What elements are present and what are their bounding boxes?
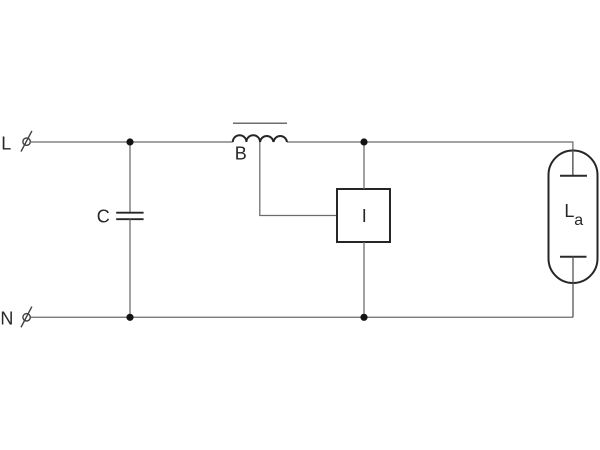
junction dot bottom capacitor	[126, 314, 133, 321]
junction dot top capacitor	[126, 138, 133, 145]
svg-text:B: B	[235, 143, 247, 163]
lamp La envelope	[549, 151, 598, 284]
terminal N	[21, 307, 32, 328]
lamp top electrode	[560, 150, 587, 176]
wire: ignitor down to bottom rail	[363, 242, 365, 317]
svg-text:a: a	[574, 212, 583, 229]
terminal L	[21, 131, 32, 152]
ignitor box I	[337, 189, 390, 242]
wire: top rail down to ignitor	[363, 142, 365, 189]
wire bottom: N terminal to lamp	[30, 316, 573, 318]
svg-text:C: C	[97, 207, 110, 227]
capacitor C	[116, 142, 143, 317]
wire tap: inductor to ignitor box	[260, 142, 337, 216]
lamp bottom electrode	[560, 257, 587, 318]
junction dot top ignitor	[360, 138, 367, 145]
wire top: L terminal to inductor	[30, 141, 233, 143]
svg-text:L: L	[1, 133, 11, 153]
svg-text:L: L	[564, 201, 574, 221]
inductor B core line	[233, 122, 287, 124]
svg-text:I: I	[362, 206, 367, 226]
inductor B coil	[233, 135, 287, 142]
junction dot bottom ignitor	[360, 314, 367, 321]
wire top: inductor to lamp, corner down to lamp electrode	[287, 142, 573, 176]
svg-text:N: N	[0, 308, 13, 328]
